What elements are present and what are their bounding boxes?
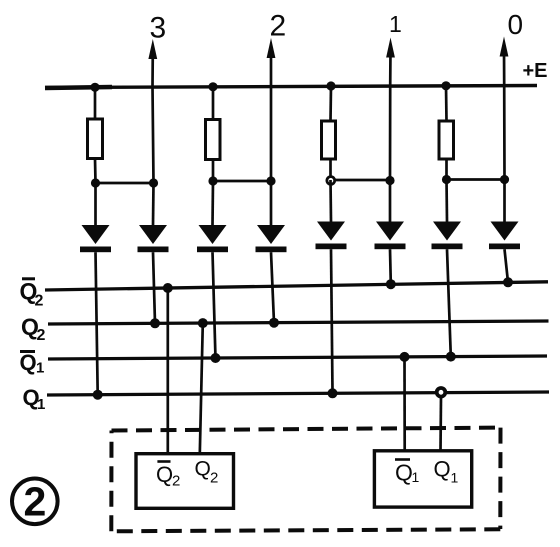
svg-text:0: 0 bbox=[508, 9, 524, 40]
svg-text:2: 2 bbox=[35, 293, 44, 310]
svg-text:Q: Q bbox=[156, 462, 173, 487]
svg-text:1: 1 bbox=[451, 470, 459, 486]
svg-text:2: 2 bbox=[37, 327, 46, 344]
svg-text:1: 1 bbox=[37, 396, 45, 413]
svg-text:3: 3 bbox=[150, 12, 167, 45]
svg-text:Q: Q bbox=[195, 458, 211, 481]
svg-text:+E: +E bbox=[523, 60, 548, 82]
svg-text:2: 2 bbox=[24, 479, 47, 525]
svg-text:2: 2 bbox=[270, 10, 287, 43]
svg-text:1: 1 bbox=[412, 469, 420, 485]
svg-text:2: 2 bbox=[210, 470, 218, 487]
svg-text:1: 1 bbox=[389, 11, 402, 37]
svg-text:1: 1 bbox=[36, 360, 44, 377]
svg-text:Q: Q bbox=[434, 457, 451, 482]
svg-text:Q: Q bbox=[20, 350, 37, 375]
svg-text:Q: Q bbox=[395, 459, 413, 485]
svg-text:2: 2 bbox=[172, 473, 180, 490]
